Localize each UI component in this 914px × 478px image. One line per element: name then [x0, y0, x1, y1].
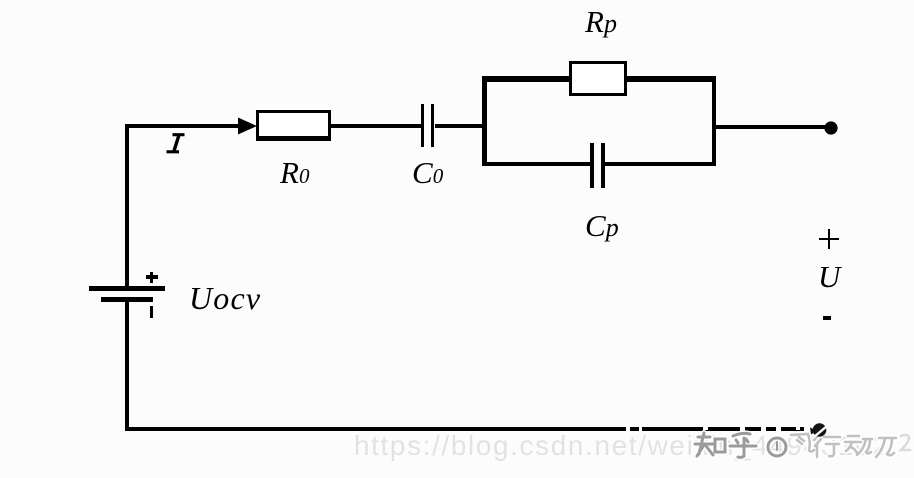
current arrow head [238, 116, 258, 136]
label Uocv [189, 280, 261, 317]
resistor R0 [256, 110, 331, 141]
bottom return wire [125, 427, 804, 431]
battery short plate [101, 297, 153, 302]
left vertical wire upper (top corner to battery) [125, 124, 129, 286]
watermark white breaks over bottom wire [626, 426, 630, 432]
end-of-wire blob [810, 420, 830, 440]
capacitor Cp [590, 143, 594, 188]
left vertical wire lower (battery to bottom corner) [125, 302, 129, 432]
label Rp [585, 4, 617, 40]
output terminal dot [824, 121, 839, 136]
wire between R0 and C0 [331, 124, 421, 128]
RC bottom branch wire left part [482, 162, 594, 167]
battery Uocv : long plate [89, 286, 164, 292]
label R0 [280, 155, 309, 191]
wire from RC box to output terminal [716, 125, 828, 129]
output minus sign [823, 316, 832, 320]
wire top horizontal from left corner to arrow [125, 124, 253, 128]
node I label [163, 131, 189, 155]
battery plus sign [146, 275, 158, 279]
battery minus mark [150, 306, 153, 318]
resistor Rp [569, 61, 627, 96]
label U (output voltage) [818, 259, 840, 295]
RC parallel network left vertical wire [482, 76, 487, 165]
RC top branch wire (thick) [482, 76, 716, 82]
capacitor C0 [421, 104, 425, 147]
label Cp [585, 208, 619, 244]
wire between C0 and RC box [435, 124, 484, 128]
label C0 [412, 155, 443, 191]
RC bottom branch wire right part [601, 162, 716, 167]
watermark zhihu text (drawn as svg strokes) [688, 428, 914, 462]
output plus sign [819, 238, 839, 241]
watermark csdn url [354, 430, 890, 462]
RC parallel network right vertical wire [712, 76, 717, 165]
